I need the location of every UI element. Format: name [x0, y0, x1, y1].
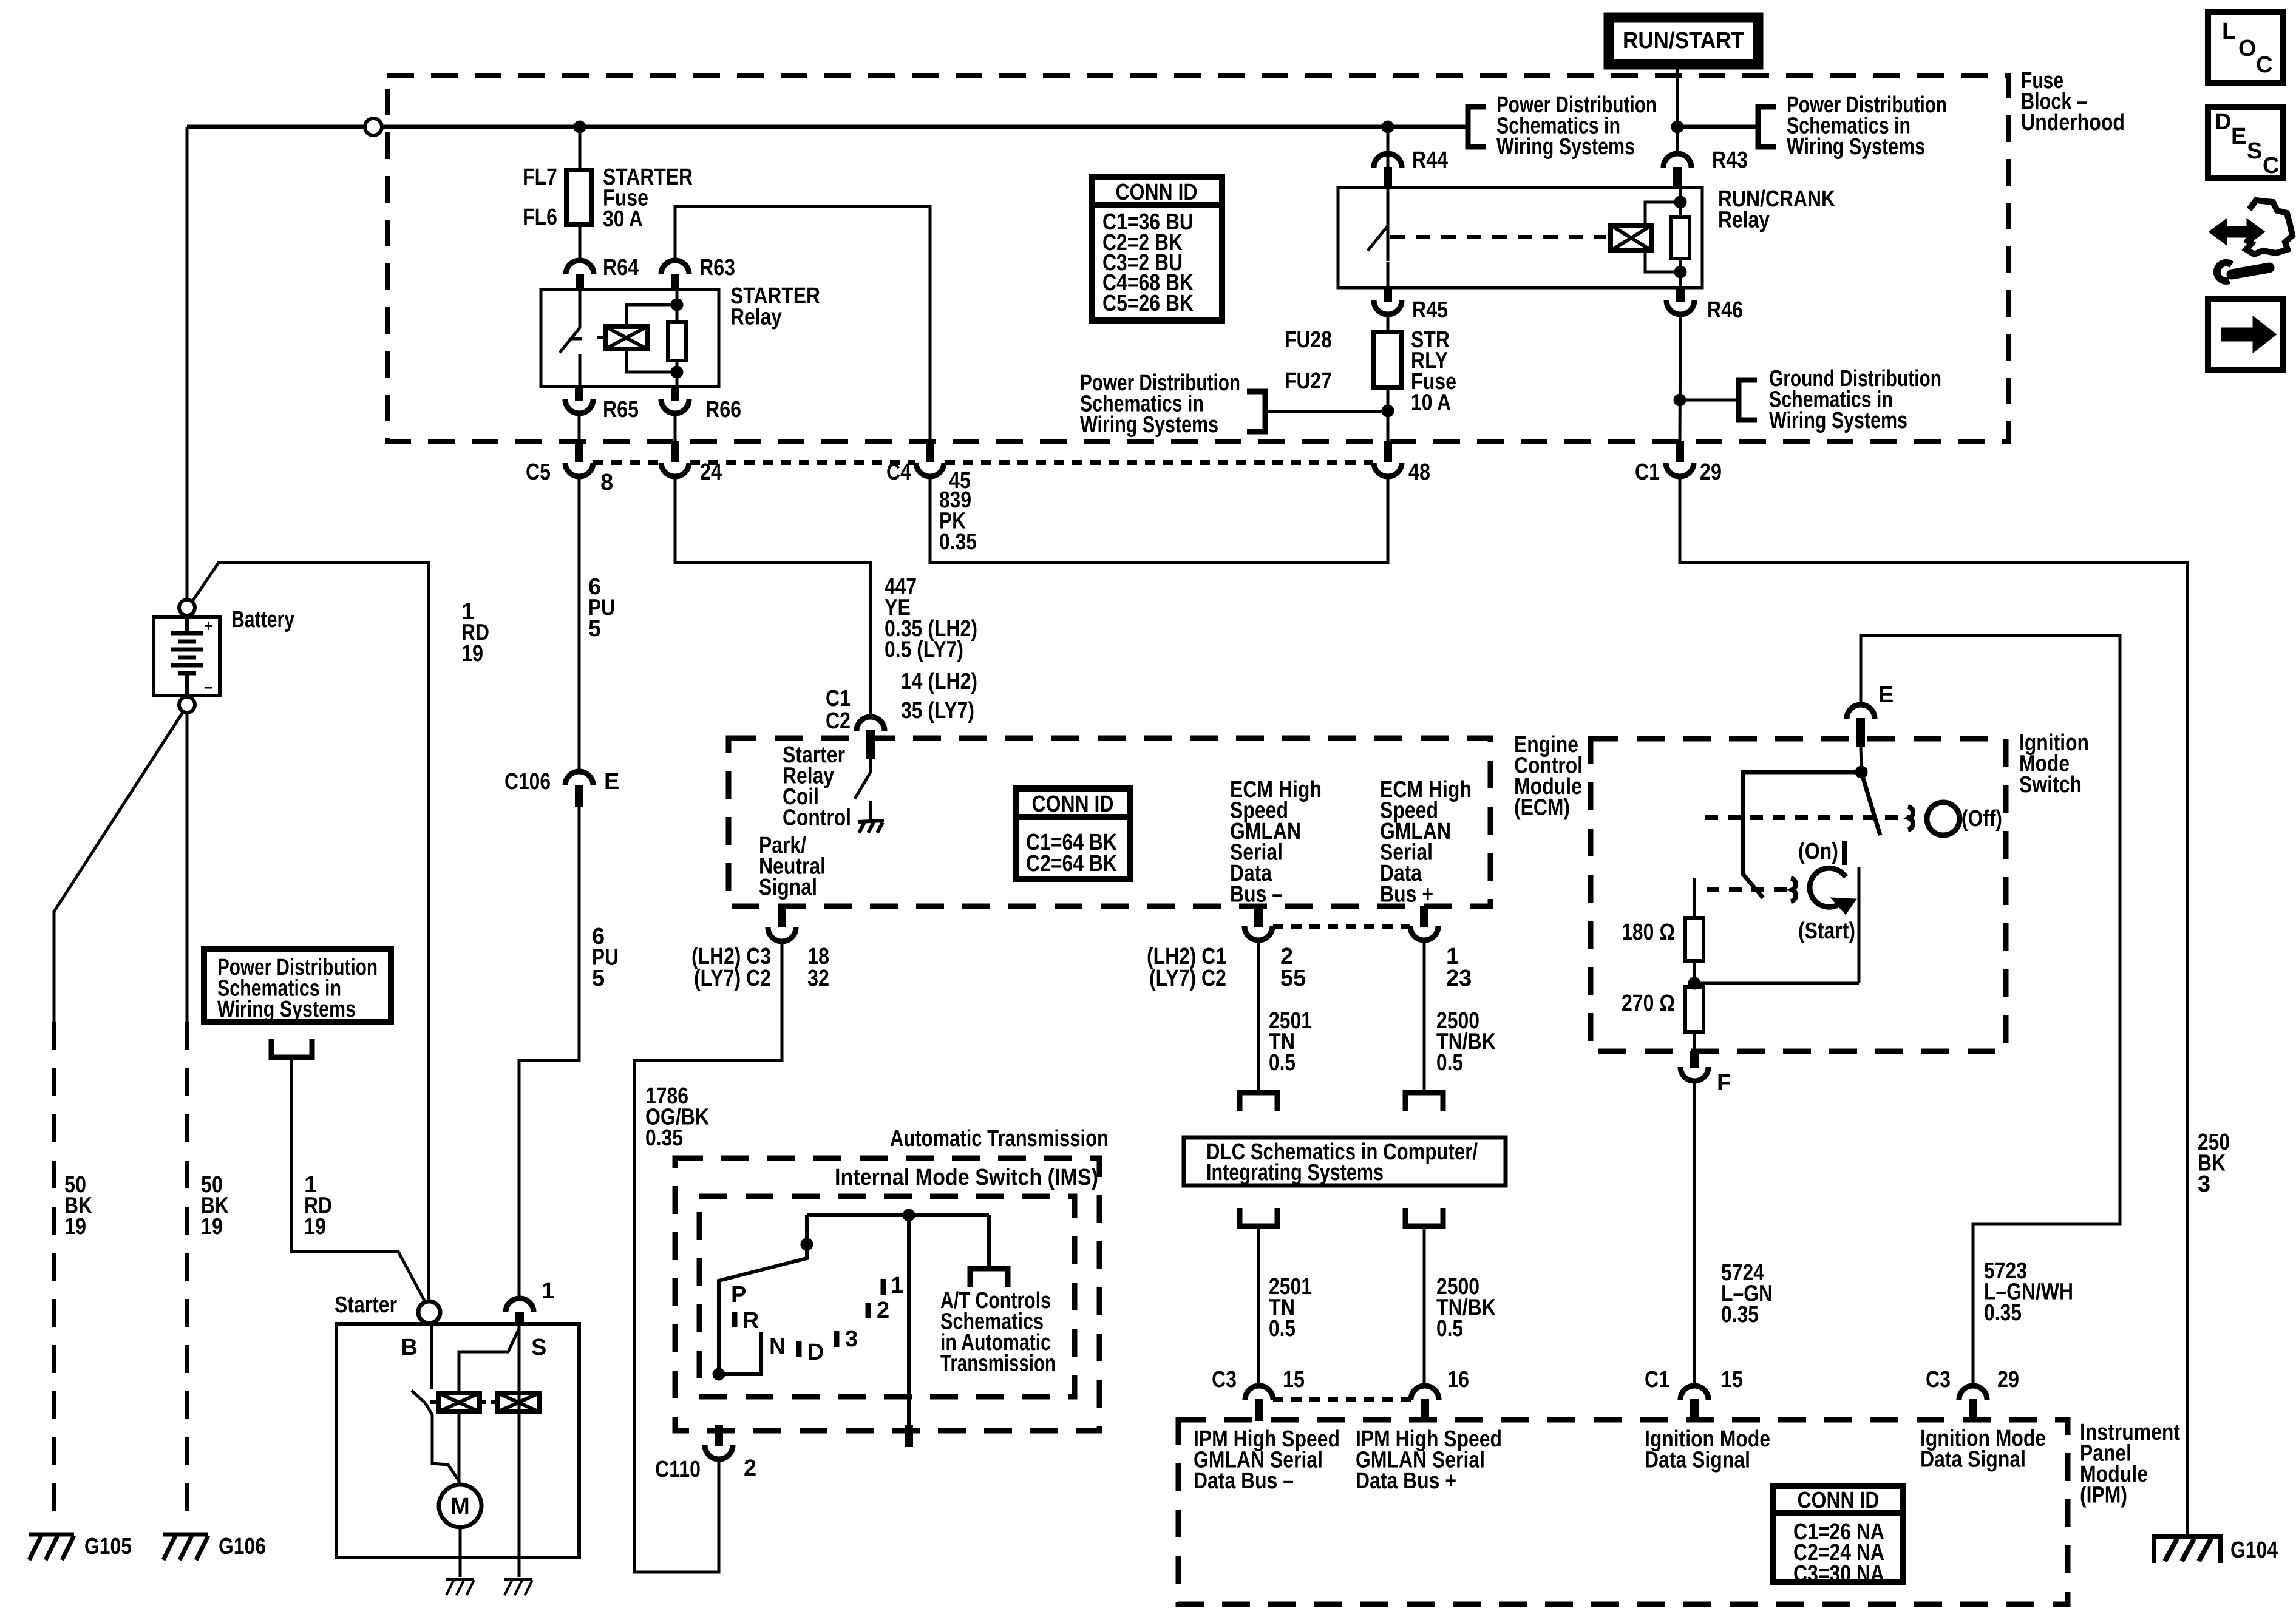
wire E into switch [1861, 747, 1861, 772]
On position tick [1842, 841, 1847, 865]
svg-text:2: 2 [877, 1298, 889, 1323]
fuse block underhood dashed outline [387, 75, 2008, 441]
svg-text:R65: R65 [603, 397, 639, 422]
wire 250 BK to G104 [1680, 476, 2187, 1534]
RUN/CRANK relay coil loop [1645, 202, 1680, 272]
starter relay box [541, 290, 719, 387]
wire fuse to 48 [1387, 388, 1390, 441]
wire 2501 TN upper [1257, 940, 1260, 1091]
svg-text:R43: R43 [1712, 147, 1748, 173]
dashed link between ECM GMLAN connectors [1273, 924, 1410, 929]
wire bus to power distribution reference right [1677, 125, 1758, 129]
svg-text:L: L [2222, 19, 2236, 44]
wire C4-45 to R63 [675, 206, 930, 441]
svg-text:F: F [1717, 1070, 1731, 1096]
ignition switch second pole [1743, 772, 1861, 898]
svg-text:C4: C4 [886, 459, 911, 485]
RUN/CRANK relay linkage dashed [1390, 235, 1606, 239]
svg-text:C1: C1 [1645, 1367, 1669, 1392]
svg-text:5: 5 [592, 966, 605, 991]
svg-text:29: 29 [1700, 459, 1722, 485]
svg-text:48: 48 [1408, 459, 1430, 485]
svg-text:Wiring Systems: Wiring Systems [217, 997, 356, 1022]
connector R44 [1374, 154, 1402, 168]
ECM starter relay coil control switch [855, 759, 871, 821]
svg-text:Signal: Signal [759, 875, 817, 900]
wire R46 to C1-29 [1680, 314, 1680, 441]
ignition switch blade to Off [1861, 772, 1880, 835]
label Engine Control Module ECM [1514, 732, 1583, 821]
svg-text:C3: C3 [1212, 1367, 1237, 1392]
label wire 250 BK 3 [2198, 1130, 2230, 1197]
svg-text:S: S [2247, 138, 2262, 164]
dashed wire 50 BK 19 to G106 [185, 1022, 189, 1528]
icon DESC box [2208, 107, 2283, 178]
wire 1786 OG/BK [634, 941, 782, 1572]
svg-text:CONN ID: CONN ID [1032, 792, 1114, 817]
CONN ID table IPM [1773, 1486, 1903, 1587]
connector R43 [1663, 154, 1691, 168]
off-page connector AT controls [970, 1269, 1008, 1287]
battery box [154, 617, 220, 696]
connector C1/C2 ECM [857, 717, 885, 731]
CONN ID table ECM [1016, 788, 1130, 879]
connector C1 pin 15 [1680, 1386, 1708, 1400]
icon arrows and wrench [2210, 200, 2292, 281]
svg-text:C110: C110 [655, 1457, 701, 1482]
connector R64 [566, 260, 594, 274]
wire RUN/START to bus [1676, 64, 1679, 127]
wire R65 to C5 [578, 413, 581, 441]
icon LOC box [2208, 12, 2283, 83]
label wire 447 YE [885, 574, 977, 663]
svg-text:23: 23 [1446, 966, 1472, 991]
instrument panel module dashed box [1178, 1420, 2068, 1604]
Start position dashed line [1707, 887, 1792, 892]
label pins 14 LH2 35 LY7 [901, 669, 977, 724]
svg-text:0.5: 0.5 [1269, 1050, 1296, 1076]
svg-text:C3: C3 [1926, 1367, 1951, 1392]
battery negative terminal circle [179, 697, 195, 713]
svg-text:0.5: 0.5 [1436, 1050, 1463, 1076]
connector F stub [1690, 1051, 1699, 1068]
svg-text:32: 32 [807, 966, 829, 991]
svg-text:C1: C1 [826, 686, 851, 711]
connector R45 stub [1384, 288, 1392, 302]
wire fuse to R64 [579, 225, 582, 261]
IMS N contact line [719, 1332, 761, 1374]
winding link dashes [480, 1400, 498, 1404]
connector E ignition switch [1847, 705, 1875, 719]
label power distribution schematics right [1787, 92, 1947, 160]
svg-text:Automatic Transmission: Automatic Transmission [890, 1126, 1109, 1151]
svg-text:R66: R66 [705, 397, 741, 422]
reference bracket ground distribution [1739, 380, 1757, 420]
svg-text:P: P [731, 1282, 746, 1307]
resistor 270 ohm [1685, 987, 1703, 1032]
label AT controls schematics [940, 1288, 1056, 1377]
wire S to ground [518, 1555, 521, 1577]
svg-text:+: + [204, 617, 213, 635]
junction between resistors [1688, 977, 1700, 989]
wire 839 PK C4-45 to 48 [930, 476, 1388, 563]
svg-text:CONN ID: CONN ID [1798, 1488, 1880, 1513]
svg-text:55: 55 [1280, 966, 1306, 991]
svg-text:35 (LY7): 35 (LY7) [901, 698, 974, 724]
ignition mode switch dashed box [1591, 739, 2006, 1051]
fuse FL7/FL6 STARTER Fuse 30A [566, 170, 592, 225]
svg-text:Starter: Starter [335, 1292, 397, 1318]
svg-text:FU27: FU27 [1285, 368, 1332, 394]
dashed wire 50 BK 19 to G105 [52, 1022, 56, 1528]
label wire 5724 L-GN 0.35 [1721, 1260, 1773, 1327]
Off contact [1908, 807, 1913, 830]
tick D [796, 1341, 802, 1357]
label wire 2501 TN 0.5 upper [1269, 1008, 1312, 1076]
connector C110 pin 2 [705, 1445, 733, 1459]
connector 1 [506, 1298, 534, 1312]
wire R45 to fuse FU28 [1387, 314, 1390, 332]
wire motor to ground [459, 1527, 462, 1577]
label wire 1786 OG/BK 0.35 [645, 1083, 709, 1151]
svg-text:FL6: FL6 [523, 205, 557, 230]
svg-text:0.5: 0.5 [1269, 1316, 1296, 1341]
svg-text:D: D [2215, 109, 2231, 135]
connector pin 16 [1411, 1386, 1439, 1400]
Off position circle [1927, 802, 1960, 835]
svg-text:1: 1 [891, 1273, 903, 1298]
tick R [732, 1312, 738, 1327]
label ignition mode data signal 1 [1645, 1426, 1770, 1473]
svg-text:R64: R64 [603, 255, 639, 280]
junction relay coil top [671, 299, 683, 311]
svg-text:15: 15 [1721, 1367, 1743, 1392]
starter solenoid switch blade [412, 1323, 460, 1482]
svg-text:G104: G104 [2230, 1537, 2278, 1563]
svg-text:CONN ID: CONN ID [1116, 180, 1198, 205]
label Fuse Block - Underhood [2021, 68, 2125, 135]
reference bracket power distribution lower [1247, 392, 1265, 432]
label ECM GMLAN bus plus [1380, 777, 1472, 907]
svg-text:Wiring Systems: Wiring Systems [1769, 408, 1907, 433]
label Park Neutral Signal [759, 833, 826, 900]
svg-text:G105: G105 [84, 1534, 132, 1559]
reference bracket power distribution right [1758, 107, 1776, 147]
connector C4 stub [926, 441, 934, 462]
svg-text:(IPM): (IPM) [2080, 1483, 2127, 1508]
Off position dashed line [1705, 815, 1911, 820]
off-page connector bus minus upper [1240, 1093, 1277, 1111]
svg-text:C3=30 NA: C3=30 NA [1793, 1561, 1884, 1587]
wire 2500 TN/BK lower [1423, 1226, 1426, 1386]
svg-text:16: 16 [1447, 1367, 1469, 1392]
RUN/CRANK relay coil [1611, 225, 1652, 251]
label wire 2500 TN/BK 0.5 lower [1436, 1274, 1496, 1341]
label STARTER Relay [730, 283, 820, 330]
svg-text:(LY7) C2: (LY7) C2 [694, 966, 771, 991]
starter relay resistor [668, 322, 686, 361]
wire S terminal [518, 1326, 521, 1555]
off-page connector bus plus lower [1405, 1208, 1443, 1226]
off-page connector bus minus lower [1240, 1208, 1277, 1226]
svg-text:Switch: Switch [2019, 772, 2082, 798]
svg-text:FL7: FL7 [523, 164, 557, 190]
svg-text:C106: C106 [504, 769, 551, 795]
junction RC coil bottom [1674, 266, 1686, 278]
wire 5723 L-GN/WH loop [1861, 636, 2120, 1386]
wire 447 YE from 24 [675, 476, 871, 717]
svg-text:(On): (On) [1798, 839, 1838, 864]
RUN/CRANK relay switch [1368, 188, 1388, 288]
DLC schematics box [1184, 1137, 1506, 1185]
icon arrow box [2208, 299, 2283, 370]
svg-text:0.35: 0.35 [939, 529, 977, 555]
wire 6 PU 5 upper [578, 476, 581, 771]
RUN/CRANK relay resistor [1671, 217, 1690, 259]
tick 3 [834, 1331, 840, 1347]
label wire 6 PU 5 lower [592, 924, 619, 991]
connector 24 stub [671, 441, 679, 462]
label IPM bus minus [1194, 1426, 1340, 1494]
connector row dashed line [593, 460, 1373, 465]
label STR RLY Fuse 10 A [1411, 327, 1456, 416]
battery plates [171, 617, 203, 696]
connector C5 stub [575, 441, 583, 462]
starter box [336, 1324, 579, 1558]
svg-text:Bus –: Bus – [1230, 882, 1283, 907]
svg-text:180 Ω: 180 Ω [1622, 920, 1675, 945]
IMS top wire [807, 1213, 989, 1217]
automatic transmission dashed box [675, 1158, 1099, 1431]
connector R66 stub [671, 387, 679, 401]
svg-text:Data Bus –: Data Bus – [1194, 1468, 1294, 1494]
svg-text:Relay: Relay [1718, 208, 1770, 233]
junction bus RUN/START and R43 [1671, 121, 1683, 133]
svg-text:5: 5 [588, 616, 601, 642]
wire 5724 L-GN [1693, 1081, 1696, 1386]
label STARTER Fuse 30 A [603, 164, 693, 232]
label Ignition Mode Switch [2019, 730, 2089, 798]
wire On contact down [1858, 867, 1861, 983]
Start rotary symbol [1810, 868, 1846, 907]
battery positive terminal circle [179, 600, 195, 615]
label RUN/CRANK Relay [1718, 186, 1835, 233]
svg-text:8: 8 [600, 470, 613, 495]
wire battery negative to G106 [186, 713, 189, 1022]
svg-text:FU28: FU28 [1285, 327, 1332, 353]
svg-text:Battery: Battery [231, 607, 294, 632]
label wire 2501 TN 0.5 lower [1269, 1274, 1312, 1341]
label power distribution schematics lower [1080, 370, 1240, 438]
terminal circle at fuse block entry [365, 118, 382, 135]
svg-text:Wiring Systems: Wiring Systems [1496, 134, 1635, 160]
wire to R43 [1676, 127, 1679, 154]
svg-text:C2=64 BK: C2=64 BK [1026, 851, 1117, 876]
label Instrument Panel Module IPM [2080, 1420, 2180, 1508]
wire to AT controls connector [987, 1215, 991, 1269]
junction R46 to ground reference [1674, 394, 1686, 406]
CONN ID table fuse block [1092, 177, 1222, 320]
wire battery positive bus left segment [187, 125, 365, 129]
svg-text:1: 1 [542, 1278, 554, 1304]
junction RC coil top [1674, 196, 1686, 208]
svg-text:G106: G106 [219, 1534, 266, 1559]
Start contact [1791, 878, 1796, 901]
svg-text:E: E [2231, 124, 2246, 149]
wire to ground distribution reference [1680, 399, 1739, 402]
svg-text:S: S [531, 1335, 546, 1360]
svg-text:14 (LH2): 14 (LH2) [901, 669, 977, 694]
svg-text:19: 19 [304, 1214, 326, 1239]
resistor 180 ohm [1693, 878, 1696, 987]
ground G105 [29, 1534, 74, 1560]
RUN/START box [1609, 18, 1758, 64]
wire bus to R44 [1387, 127, 1390, 261]
svg-text:C: C [2256, 52, 2272, 78]
svg-text:0.35: 0.35 [1721, 1302, 1759, 1327]
wire bus down to battery positive [186, 127, 189, 600]
svg-text:Wiring Systems: Wiring Systems [1787, 134, 1925, 160]
svg-text:E: E [604, 769, 619, 795]
connector ECM GMLAN stub 1 [1420, 906, 1428, 927]
connector C106 pin E [565, 771, 593, 785]
svg-text:3: 3 [2198, 1171, 2210, 1197]
wire 1 RD 19 battery to starter B [192, 563, 429, 1303]
junction IMS to AT controls [903, 1209, 915, 1221]
svg-text:C5=26 BK: C5=26 BK [1102, 291, 1194, 316]
svg-text:Bus +: Bus + [1380, 882, 1433, 907]
label wire 6 PU 5 upper [588, 574, 615, 642]
label wire 839 PK 0.35 [939, 487, 977, 555]
svg-text:(Off): (Off) [1961, 806, 2002, 832]
label Starter Relay Coil Control [783, 742, 851, 831]
svg-text:0.5: 0.5 [1436, 1316, 1463, 1341]
svg-text:10 A: 10 A [1411, 390, 1451, 416]
ground starter motor [446, 1579, 474, 1595]
label IPM bus plus [1356, 1426, 1502, 1494]
svg-text:Relay: Relay [730, 305, 782, 330]
internal mode switch dashed box [699, 1196, 1075, 1397]
wire bus to starter fuse [579, 127, 582, 170]
connector C3 pin 29 [1959, 1386, 1987, 1400]
svg-text:C2: C2 [826, 708, 851, 734]
label wire 50 BK 19 right [201, 1172, 229, 1239]
svg-text:19: 19 [461, 641, 483, 666]
solenoid S blade [459, 1329, 519, 1393]
connector C3/C2 stub park neutral [778, 906, 786, 927]
dashed link between IPM GMLAN connectors [1273, 1397, 1411, 1402]
svg-text:C1: C1 [1635, 459, 1660, 485]
svg-text:R45: R45 [1412, 297, 1448, 323]
svg-text:Integrating Systems: Integrating Systems [1206, 1160, 1384, 1185]
starter relay coil parallel loop [627, 305, 677, 372]
wire 270 ohm to F [1693, 1032, 1696, 1053]
svg-text:N: N [769, 1334, 786, 1360]
wire to power distribution reference left [1265, 410, 1388, 413]
svg-text:(LY7) C2: (LY7) C2 [1149, 966, 1226, 991]
reference bracket power distribution middle [1468, 107, 1486, 147]
svg-text:D: D [807, 1340, 824, 1365]
engine control module dashed box [729, 738, 1490, 906]
IMS centre wire to C110 pin [907, 1215, 911, 1425]
ground G106 [163, 1534, 208, 1560]
starter B terminal circle [418, 1301, 440, 1323]
solenoid hold-in winding [498, 1393, 539, 1412]
svg-text:R63: R63 [699, 255, 735, 280]
label wire 5723 L-GN/WH 0.35 [1984, 1258, 2073, 1326]
wire R66 to 24 [674, 413, 677, 441]
wire resistor junction to On contact [1694, 982, 1859, 985]
svg-text:Wiring Systems: Wiring Systems [1080, 412, 1218, 438]
svg-text:2: 2 [744, 1456, 756, 1481]
power distribution schematics box [204, 949, 391, 1022]
label wire 2500 TN/BK 0.5 upper [1436, 1008, 1496, 1076]
svg-text:Data Signal: Data Signal [1920, 1447, 2026, 1473]
wire battery positive bus main segment [382, 125, 1468, 129]
junction bus to starter fuse [574, 121, 586, 133]
wire battery negative to G105 [54, 711, 183, 1022]
svg-text:E: E [1878, 682, 1894, 708]
svg-text:Data Bus +: Data Bus + [1356, 1468, 1456, 1494]
svg-text:3: 3 [845, 1326, 858, 1352]
wire winding to motor [458, 1412, 461, 1485]
wire 2501 TN lower [1257, 1226, 1260, 1386]
svg-text:Internal Mode Switch (IMS): Internal Mode Switch (IMS) [835, 1165, 1098, 1190]
svg-text:R: R [742, 1308, 759, 1334]
connector R65 stub [575, 387, 583, 401]
fuse FU28/FU27 STR RLY 10A [1374, 332, 1402, 388]
svg-text:0.5 (LY7): 0.5 (LY7) [885, 637, 963, 663]
connector C1 stub [1676, 441, 1684, 462]
starter relay switch [560, 290, 582, 387]
connector C3 pin 15 [1245, 1386, 1273, 1400]
svg-text:0.35: 0.35 [1984, 1300, 2022, 1326]
svg-text:RUN/START: RUN/START [1623, 28, 1744, 53]
svg-text:R44: R44 [1412, 147, 1448, 173]
stub IMS output [905, 1425, 913, 1447]
junction IMS wiper [801, 1238, 813, 1250]
connector R46 stub [1676, 288, 1685, 302]
svg-text:30 A: 30 A [603, 206, 643, 232]
svg-text:270 Ω: 270 Ω [1622, 991, 1675, 1016]
label power distribution box left [217, 955, 378, 1022]
ground G104 [2154, 1536, 2221, 1563]
off-page connector bus plus upper [1405, 1093, 1443, 1111]
connector 48 stub [1384, 441, 1392, 462]
svg-text:C5: C5 [526, 459, 551, 485]
svg-text:24: 24 [700, 459, 722, 485]
ground solenoid [504, 1579, 532, 1595]
svg-text:Data Signal: Data Signal [1645, 1448, 1750, 1473]
ECM internal ground [858, 821, 884, 833]
svg-text:B: B [401, 1335, 418, 1360]
off-page connector below power distribution box [271, 1039, 312, 1057]
starter relay coil [605, 327, 647, 349]
svg-text:(ECM): (ECM) [1514, 795, 1570, 821]
svg-text:R46: R46 [1707, 297, 1743, 323]
svg-text:M: M [450, 1494, 470, 1519]
label wire 1 RD 19 [461, 599, 489, 666]
svg-text:29: 29 [1997, 1367, 2019, 1392]
svg-text:Control: Control [783, 805, 851, 831]
label wire 1 RD 19 lower [304, 1172, 332, 1239]
wire 1 RD 19 from power distribution to starter B [291, 1057, 427, 1305]
svg-text:0.35: 0.35 [645, 1125, 683, 1151]
junction relay coil bottom [671, 366, 683, 378]
svg-text:Underhood: Underhood [2021, 110, 2125, 135]
svg-text:(Start): (Start) [1798, 918, 1855, 944]
wire 6 PU 5 to connector 1 [519, 807, 579, 1298]
